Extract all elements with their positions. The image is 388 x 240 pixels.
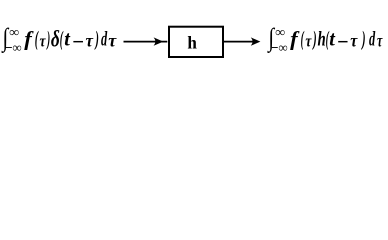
svg-text:h: h (187, 32, 197, 53)
node input expression: integral of f(tau) delta(t-tau) dtau (1, 24, 118, 55)
svg-text:): ) (94, 27, 99, 51)
node output expression: integral of f(tau) h(t-tau) dtau (267, 24, 384, 55)
svg-text:): ) (361, 27, 366, 51)
svg-text:τ: τ (108, 31, 117, 51)
svg-text:−: − (72, 30, 85, 53)
wire: input arrow line (124, 41, 168, 43)
svg-text:∞: ∞ (275, 25, 285, 40)
svg-text:h: h (318, 27, 326, 50)
svg-text:τ: τ (350, 31, 358, 51)
svg-text:): ) (46, 28, 50, 51)
svg-text:δ: δ (51, 27, 60, 52)
svg-text:∞: ∞ (9, 25, 19, 40)
diagram: convolution system block diagram (0, 0, 388, 82)
svg-text:−∞: −∞ (5, 40, 21, 55)
svg-text:−∞: −∞ (271, 40, 287, 55)
svg-text:−: − (337, 31, 349, 53)
svg-text:d: d (369, 27, 375, 50)
wire: output arrow line (224, 41, 255, 43)
svg-text:d: d (101, 27, 107, 50)
svg-text:): ) (312, 27, 317, 51)
block h box (169, 27, 223, 57)
arrowhead to output (251, 37, 261, 45)
arrowhead into box (154, 37, 164, 45)
